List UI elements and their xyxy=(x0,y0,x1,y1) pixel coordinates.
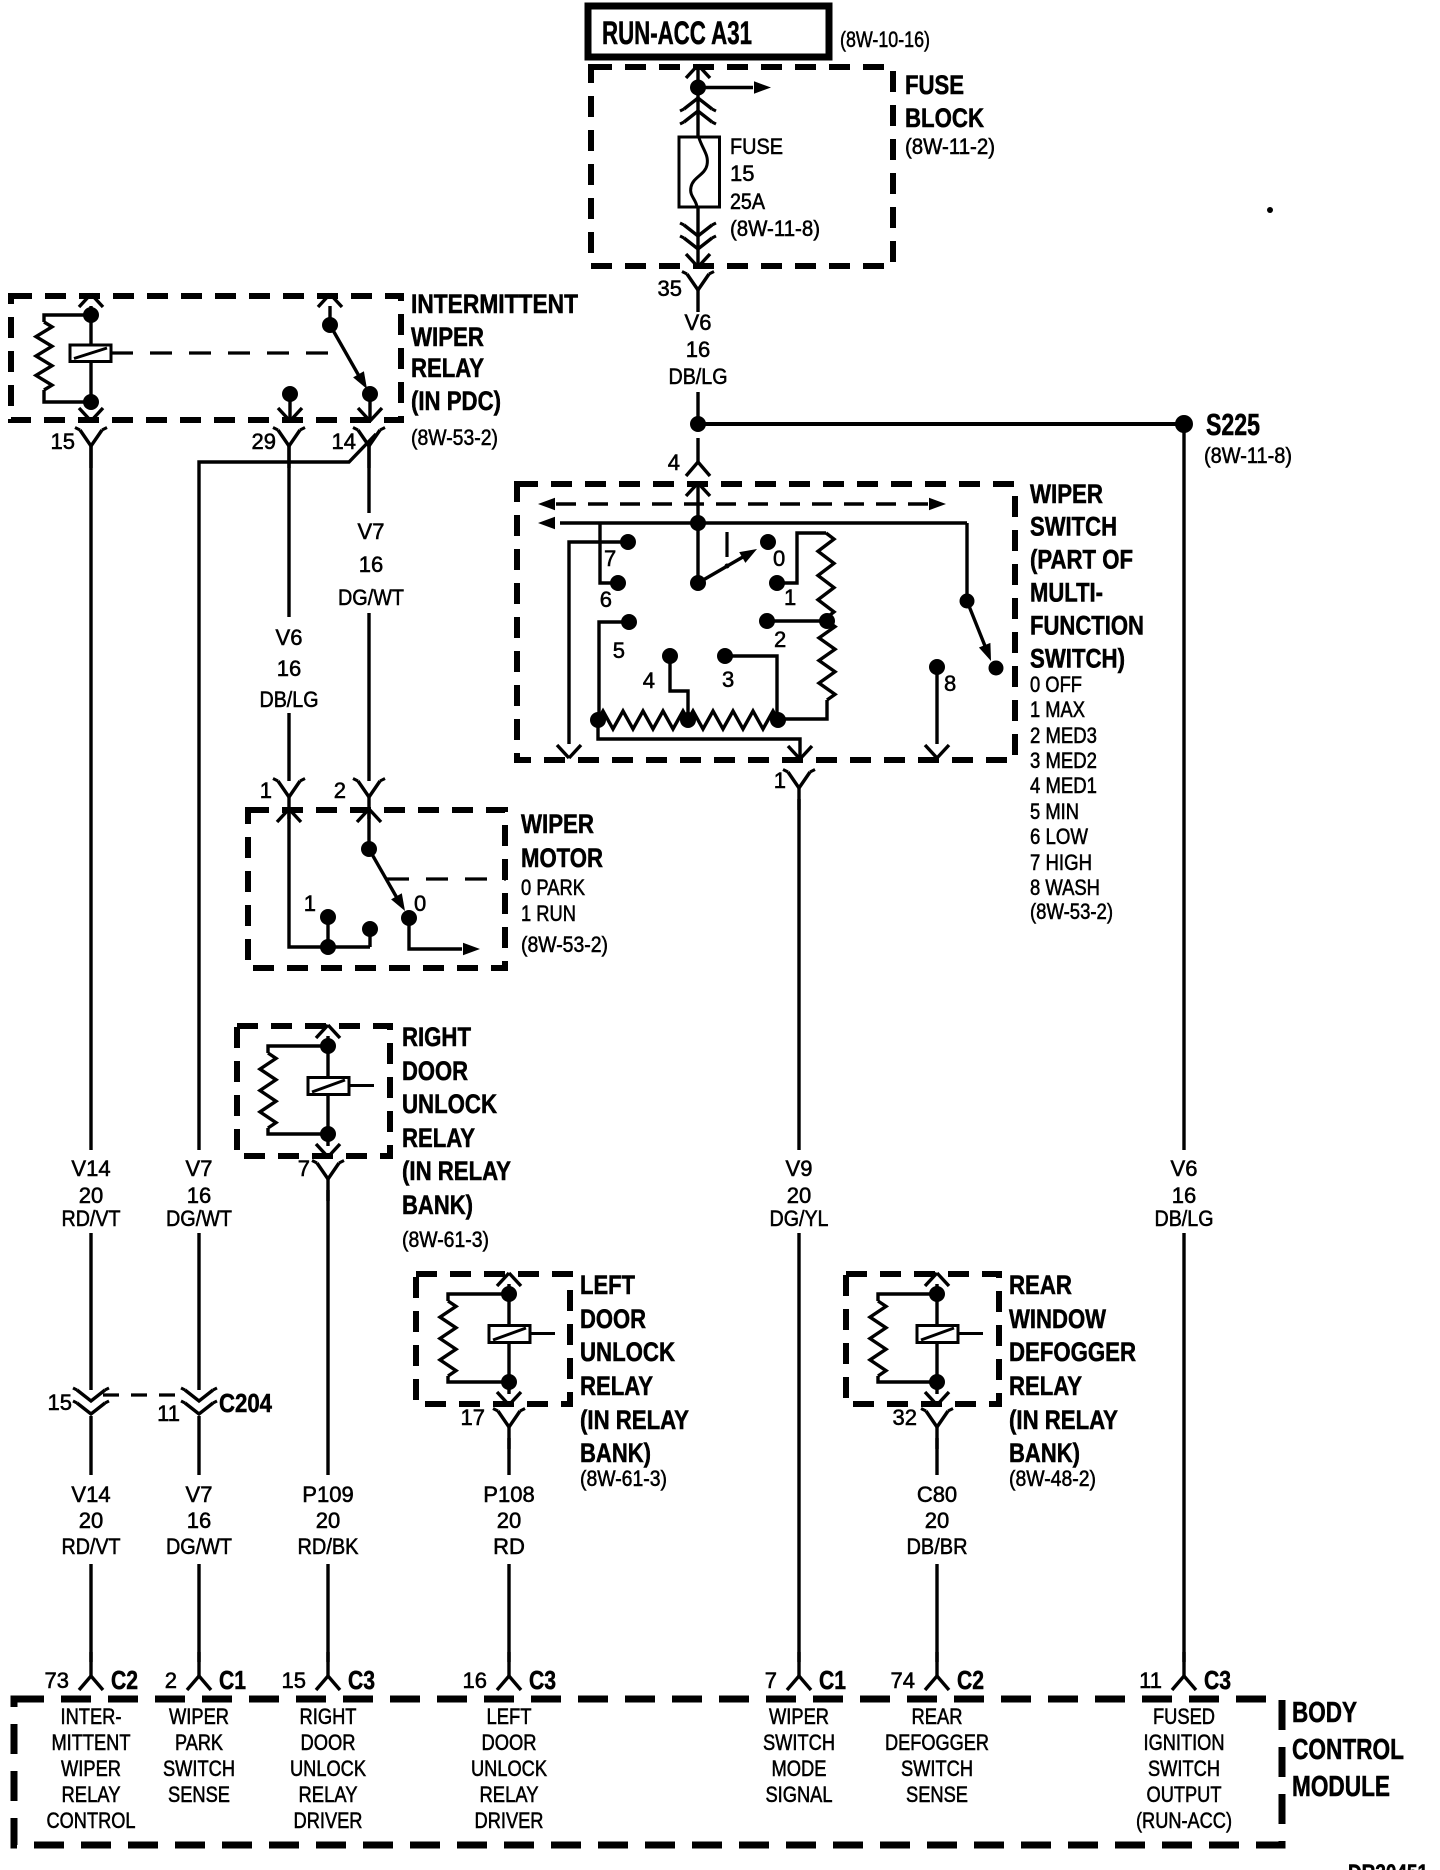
splice junction dot xyxy=(690,416,706,432)
wire label V14 20 RD/VT (upper) xyxy=(62,1156,121,1231)
BCM connector C3 pin 15 xyxy=(282,1652,375,1695)
contact 2 xyxy=(759,613,786,652)
svg-text:2: 2 xyxy=(165,1668,177,1693)
connector 32 xyxy=(893,1405,953,1449)
svg-text:32: 32 xyxy=(893,1405,917,1430)
contact 7 xyxy=(604,534,636,571)
svg-text:SENSE: SENSE xyxy=(906,1782,968,1807)
svg-text:2 MED3: 2 MED3 xyxy=(1030,723,1097,748)
switch feed wire xyxy=(696,484,699,583)
BCM connector C2 pin 74 xyxy=(891,1652,984,1695)
svg-text:35: 35 xyxy=(658,276,682,301)
svg-text:1 RUN: 1 RUN xyxy=(521,901,576,926)
svg-text:INTER-: INTER- xyxy=(61,1704,122,1729)
svg-text:DEFOGGER: DEFOGGER xyxy=(1009,1337,1136,1367)
relay switch pivot dot xyxy=(322,317,338,333)
connector 1 (motor) xyxy=(260,778,305,819)
output wire to pin 1 xyxy=(598,720,800,757)
wire contact 2 to junction xyxy=(767,619,827,622)
switch name label xyxy=(1030,479,1144,674)
svg-text:SWITCH: SWITCH xyxy=(1148,1756,1220,1781)
junction dot R4 right xyxy=(770,712,786,728)
dashed link C204 xyxy=(103,1393,187,1396)
svg-text:C1: C1 xyxy=(819,1665,846,1695)
wire contact 4 down xyxy=(670,656,688,719)
connector C204 pin 15 xyxy=(48,1388,109,1415)
svg-text:RELAY: RELAY xyxy=(1009,1371,1082,1401)
svg-text:CONTROL: CONTROL xyxy=(47,1808,136,1833)
park switch arm xyxy=(369,849,405,911)
connector 15 xyxy=(51,428,107,469)
svg-text:UNLOCK: UNLOCK xyxy=(290,1756,366,1781)
svg-text:DOOR: DOOR xyxy=(482,1730,537,1755)
body control module (dashed box) xyxy=(14,1699,1282,1845)
svg-text:(8W-11-8): (8W-11-8) xyxy=(730,216,820,241)
wire V14 lower run xyxy=(89,1416,92,1662)
wire C80 upper run xyxy=(935,1438,938,1475)
svg-text:2: 2 xyxy=(774,627,786,652)
svg-text:(RUN-ACC): (RUN-ACC) xyxy=(1136,1808,1232,1833)
entry chevron pin 15 xyxy=(79,294,103,307)
svg-text:C3: C3 xyxy=(529,1665,556,1695)
svg-text:(8W-11-8): (8W-11-8) xyxy=(1204,443,1292,468)
svg-text:CONTROL: CONTROL xyxy=(1292,1734,1404,1766)
svg-text:11: 11 xyxy=(1139,1668,1162,1693)
resistor R4 (horizontal right) xyxy=(688,711,778,729)
wire C80 lower run xyxy=(935,1564,938,1662)
svg-text:RIGHT: RIGHT xyxy=(402,1022,471,1052)
wire R2 to bottom junction xyxy=(779,700,827,719)
svg-text:1: 1 xyxy=(304,891,316,916)
wire V14 to C204 xyxy=(89,1233,92,1390)
wire label V14 20 RD/VT (lower) xyxy=(62,1482,121,1559)
wire label V6 16 DB/LG xyxy=(669,310,728,389)
junction dot fuse feed xyxy=(690,80,706,96)
exit chevron pin 14 xyxy=(358,408,382,421)
svg-text:DOOR: DOOR xyxy=(301,1730,356,1755)
reference (8W-53-2) xyxy=(411,425,498,450)
label S225 xyxy=(1206,407,1260,442)
resistor R2 (vertical) xyxy=(819,621,835,700)
center contact dot xyxy=(362,921,378,937)
reference (8W-11-8) xyxy=(1204,443,1292,468)
svg-text:20: 20 xyxy=(787,1183,811,1208)
svg-text:0 PARK: 0 PARK xyxy=(521,875,585,900)
svg-text:(PART OF: (PART OF xyxy=(1030,545,1133,575)
connector 2 (motor) xyxy=(334,778,385,819)
right arm pivot dot xyxy=(960,594,975,609)
left door unlock relay (dashed box) xyxy=(416,1274,570,1404)
svg-text:RELAY: RELAY xyxy=(402,1123,475,1153)
junction dot R1/R2 xyxy=(819,613,835,629)
svg-text:16: 16 xyxy=(686,337,710,362)
svg-text:FUSE: FUSE xyxy=(730,134,783,159)
wire label P108 20 RD xyxy=(483,1482,534,1559)
svg-text:DOOR: DOOR xyxy=(580,1304,646,1334)
svg-text:4: 4 xyxy=(643,668,655,693)
svg-text:0 OFF: 0 OFF xyxy=(1030,672,1082,697)
svg-text:RELAY: RELAY xyxy=(411,353,484,383)
svg-text:DRIVER: DRIVER xyxy=(475,1808,544,1833)
svg-text:20: 20 xyxy=(79,1508,103,1533)
relay coil wire xyxy=(89,306,92,402)
wire label V7 16 DG/WT (lower) xyxy=(166,1482,232,1559)
svg-text:WIPER: WIPER xyxy=(521,809,594,839)
BCM connector C2 pin 73 xyxy=(45,1652,138,1695)
left door unlock relay internals xyxy=(440,1273,555,1405)
connector 7 xyxy=(298,1156,344,1201)
svg-text:6 LOW: 6 LOW xyxy=(1030,824,1088,849)
svg-text:73: 73 xyxy=(45,1668,69,1693)
park output arrow xyxy=(463,943,480,955)
rear defogger relay internals xyxy=(870,1273,983,1405)
park contact 1 xyxy=(304,891,336,925)
BCM pin 73 function label xyxy=(47,1704,136,1833)
svg-text:8 WASH: 8 WASH xyxy=(1030,875,1100,900)
svg-text:DG/WT: DG/WT xyxy=(166,1206,232,1231)
BCM pin 11 function label xyxy=(1136,1704,1232,1833)
svg-text:(IN RELAY: (IN RELAY xyxy=(402,1156,511,1186)
svg-text:16: 16 xyxy=(463,1668,487,1693)
switch pivot dot xyxy=(690,575,706,591)
BCM pin 16 function label xyxy=(471,1704,547,1833)
svg-text:BANK): BANK) xyxy=(580,1438,651,1468)
wire contact 5 down xyxy=(599,622,629,720)
park contact 1 stem xyxy=(326,917,329,947)
svg-text:C204: C204 xyxy=(219,1388,272,1418)
entry chevron motor pin 2 xyxy=(357,809,381,822)
entry chevron switch feed xyxy=(686,483,710,496)
contact 6 xyxy=(600,575,626,612)
wire contact 3 down xyxy=(725,656,777,719)
connector 35 xyxy=(658,272,714,313)
svg-text:WIPER: WIPER xyxy=(769,1704,829,1729)
svg-text:29: 29 xyxy=(252,429,276,454)
wire feed into fuse block xyxy=(696,66,699,137)
svg-text:0: 0 xyxy=(414,891,426,916)
svg-text:PARK: PARK xyxy=(175,1730,223,1755)
wire contact 6 to bus xyxy=(600,523,618,583)
svg-text:RIGHT: RIGHT xyxy=(300,1704,357,1729)
svg-text:15: 15 xyxy=(51,429,75,454)
svg-text:V6: V6 xyxy=(685,310,712,335)
svg-text:C3: C3 xyxy=(348,1665,375,1695)
exit chevron at fuse block bottom xyxy=(686,254,710,267)
wire P108 lower run xyxy=(507,1564,510,1662)
relay switch arm xyxy=(330,325,367,389)
svg-text:1: 1 xyxy=(260,778,272,803)
svg-text:20: 20 xyxy=(316,1508,340,1533)
relay switch common wire xyxy=(328,306,331,325)
inline connector marks (up) xyxy=(680,98,716,124)
bus wire to left arrow and right arm xyxy=(538,517,967,529)
branch arrow to other circuits xyxy=(698,81,771,93)
park switch pivot dot xyxy=(361,841,377,857)
svg-text:DG/WT: DG/WT xyxy=(338,585,404,610)
svg-text:UNLOCK: UNLOCK xyxy=(471,1756,547,1781)
wire V6 from S225 xyxy=(1182,424,1185,1662)
fuse block label xyxy=(905,70,995,159)
fuse block (dashed box) xyxy=(591,67,893,266)
svg-text:RD: RD xyxy=(493,1534,525,1559)
wiper motor (dashed box) xyxy=(248,810,505,968)
defogger relay name label xyxy=(1009,1270,1136,1491)
wire label P109 20 RD/BK xyxy=(298,1482,359,1559)
svg-text:(IN RELAY: (IN RELAY xyxy=(580,1405,689,1435)
wire branch from pin 14 xyxy=(199,434,376,1150)
svg-text:SWITCH: SWITCH xyxy=(763,1730,835,1755)
junction dot R3 left xyxy=(590,712,606,728)
svg-text:V6: V6 xyxy=(276,625,303,650)
svg-text:V7: V7 xyxy=(186,1156,213,1181)
wire fuse to block exit xyxy=(696,207,699,266)
right door unlock relay (dashed box) xyxy=(237,1026,390,1156)
junction dot R3/R4 xyxy=(680,712,696,728)
svg-text:20: 20 xyxy=(79,1183,103,1208)
feed junction dot xyxy=(690,515,706,531)
svg-text:BANK): BANK) xyxy=(1009,1438,1080,1468)
fuse 15 25A xyxy=(679,137,720,207)
svg-text:17: 17 xyxy=(461,1405,485,1430)
svg-text:15: 15 xyxy=(282,1668,306,1693)
wire P108 upper run xyxy=(507,1438,510,1475)
svg-text:(8W-11-2): (8W-11-2) xyxy=(905,134,995,159)
wire label V6 16 DB/LG (right) xyxy=(1155,1156,1214,1231)
reference (8W-10-16) xyxy=(840,27,930,52)
feed box RUN-ACC A31 xyxy=(588,6,829,57)
svg-text:(8W-53-2): (8W-53-2) xyxy=(521,932,608,957)
svg-text:BLOCK: BLOCK xyxy=(905,103,984,133)
svg-text:WIPER: WIPER xyxy=(1030,479,1103,509)
svg-text:INTERMITTENT: INTERMITTENT xyxy=(411,289,578,319)
relay contact wire pin 29 xyxy=(288,394,291,420)
svg-text:S225: S225 xyxy=(1206,407,1260,442)
svg-text:7: 7 xyxy=(298,1156,310,1181)
relay contact dot pin 29 xyxy=(282,386,298,402)
right switch arm (wash) xyxy=(967,601,991,661)
svg-text:16: 16 xyxy=(359,552,383,577)
junction dot coil bottom xyxy=(83,394,99,410)
mechanical link (dashed) xyxy=(387,877,506,880)
wire V7 to C204 xyxy=(197,1233,200,1390)
svg-text:7: 7 xyxy=(604,546,616,571)
svg-text:3 MED2: 3 MED2 xyxy=(1030,748,1097,773)
junction dot on pin1 wire xyxy=(320,939,336,955)
relay coil xyxy=(70,345,111,362)
connector C204 pin 11 xyxy=(157,1388,217,1426)
plate number (clipped) xyxy=(1348,1860,1428,1870)
svg-text:C2: C2 xyxy=(111,1665,138,1695)
svg-text:DB/BR: DB/BR xyxy=(907,1534,968,1559)
junction dot coil top xyxy=(83,307,99,323)
svg-text:(8W-10-16): (8W-10-16) xyxy=(840,27,930,52)
connector 4 xyxy=(668,438,710,476)
svg-text:DR30451: DR30451 xyxy=(1348,1860,1428,1870)
svg-text:WIPER: WIPER xyxy=(169,1704,229,1729)
svg-text:8: 8 xyxy=(944,671,956,696)
svg-text:RELAY: RELAY xyxy=(580,1371,653,1401)
motor name label xyxy=(521,809,603,873)
wire P109 lower run xyxy=(326,1564,329,1662)
svg-text:11: 11 xyxy=(157,1401,180,1426)
motor pin1 wire xyxy=(289,810,370,947)
BCM connector C3 pin 16 xyxy=(463,1652,556,1695)
contact 0 xyxy=(760,534,785,571)
svg-text:P109: P109 xyxy=(302,1482,353,1507)
svg-text:RD/VT: RD/VT xyxy=(62,1206,121,1231)
svg-text:FUNCTION: FUNCTION xyxy=(1030,611,1144,641)
svg-text:RELAY: RELAY xyxy=(480,1782,539,1807)
inline connector marks (down) xyxy=(680,223,716,249)
svg-text:V7: V7 xyxy=(358,519,385,544)
svg-text:0: 0 xyxy=(773,546,785,571)
BCM pin 2 function label xyxy=(163,1704,235,1807)
right relay name label xyxy=(402,1022,511,1252)
svg-text:OUTPUT: OUTPUT xyxy=(1147,1782,1222,1807)
wire label V7 16 DG/WT (motor feed) xyxy=(338,519,404,610)
rear window defogger relay (dashed box) xyxy=(846,1274,999,1404)
svg-text:V9: V9 xyxy=(786,1156,813,1181)
output arrow (low speed) xyxy=(557,745,581,758)
svg-text:MOTOR: MOTOR xyxy=(521,843,603,873)
svg-text:16: 16 xyxy=(277,656,301,681)
wire V7 lower run xyxy=(197,1416,200,1662)
wire V14 upper run xyxy=(89,446,92,1150)
motor position labels xyxy=(521,875,608,957)
connector 17 xyxy=(461,1405,525,1449)
svg-text:WIPER: WIPER xyxy=(411,322,484,352)
svg-text:7 HIGH: 7 HIGH xyxy=(1030,850,1092,875)
svg-text:14: 14 xyxy=(332,429,356,454)
svg-text:V7: V7 xyxy=(186,1482,213,1507)
stray scan dot xyxy=(1267,207,1273,213)
svg-text:(8W-53-2): (8W-53-2) xyxy=(1030,899,1113,924)
svg-text:MODULE: MODULE xyxy=(1292,1771,1390,1803)
svg-text:SWITCH: SWITCH xyxy=(1030,512,1117,542)
svg-text:4: 4 xyxy=(668,450,680,475)
svg-text:16: 16 xyxy=(187,1183,211,1208)
intermittent wiper relay (dashed box) xyxy=(11,296,401,420)
svg-text:DB/LG: DB/LG xyxy=(1155,1206,1214,1231)
entry chevron at fuse block top xyxy=(686,65,710,78)
mechanical link (dashed) xyxy=(111,351,344,354)
svg-text:C80: C80 xyxy=(917,1482,957,1507)
svg-text:DOOR: DOOR xyxy=(402,1056,468,1086)
svg-text:C1: C1 xyxy=(219,1665,246,1695)
svg-text:SWITCH: SWITCH xyxy=(163,1756,235,1781)
relay contact wire pin 14 xyxy=(368,394,371,420)
contact 8 xyxy=(929,659,956,696)
svg-text:C2: C2 xyxy=(957,1665,984,1695)
svg-text:RELAY: RELAY xyxy=(299,1782,358,1807)
svg-text:1 MAX: 1 MAX xyxy=(1030,697,1085,722)
connector 1 (switch output) xyxy=(774,768,815,810)
svg-text:FUSED: FUSED xyxy=(1153,1704,1215,1729)
center contact stem xyxy=(368,929,371,947)
left relay name label xyxy=(580,1270,689,1491)
svg-text:SWITCH: SWITCH xyxy=(901,1756,973,1781)
switch arm toward contact 0 xyxy=(698,549,757,583)
svg-text:16: 16 xyxy=(1172,1183,1196,1208)
svg-text:5 MIN: 5 MIN xyxy=(1030,799,1079,824)
BCM pin 7 function label xyxy=(763,1704,835,1807)
svg-text:V6: V6 xyxy=(1171,1156,1198,1181)
svg-text:(IN RELAY: (IN RELAY xyxy=(1009,1405,1118,1435)
right arm contact dot xyxy=(989,661,1004,676)
wire P109 upper run xyxy=(326,1190,329,1475)
wiper switch (dashed box) xyxy=(517,484,1015,760)
svg-text:SWITCH): SWITCH) xyxy=(1030,644,1125,674)
motor pin2 wire xyxy=(367,810,370,849)
contact 5 xyxy=(613,614,637,663)
BCM pin 74 function label xyxy=(885,1704,989,1807)
svg-text:MODE: MODE xyxy=(772,1756,827,1781)
wire V9 from wiper switch xyxy=(797,799,800,1662)
park contact 0 xyxy=(401,891,426,926)
svg-text:UNLOCK: UNLOCK xyxy=(580,1337,675,1367)
wire to splice xyxy=(696,392,699,424)
wire contact 1 to resistor xyxy=(777,533,826,583)
svg-text:(8W-61-3): (8W-61-3) xyxy=(402,1227,489,1252)
fuse value label xyxy=(730,134,820,241)
svg-text:SENSE: SENSE xyxy=(168,1782,230,1807)
dashed double-headed arrow (wiper travel) xyxy=(538,498,946,510)
svg-text:2: 2 xyxy=(334,778,346,803)
svg-text:1: 1 xyxy=(784,585,796,610)
svg-text:V14: V14 xyxy=(71,1482,110,1507)
svg-text:20: 20 xyxy=(925,1508,949,1533)
resistor R1 (vertical) xyxy=(818,533,834,618)
svg-text:DB/LG: DB/LG xyxy=(669,364,728,389)
svg-text:DRIVER: DRIVER xyxy=(294,1808,363,1833)
wire label V7 16 DG/WT (upper) xyxy=(166,1156,232,1231)
svg-text:FUSE: FUSE xyxy=(905,70,964,100)
svg-text:20: 20 xyxy=(497,1508,521,1533)
wire splice to S225 xyxy=(698,422,1184,426)
wash output wire xyxy=(935,667,938,744)
svg-text:6: 6 xyxy=(600,587,612,612)
BCM connector C1 pin 7 xyxy=(765,1652,846,1695)
wire pin 29 to motor xyxy=(287,446,290,781)
entry chevron coil feed xyxy=(318,294,342,307)
svg-text:4 MED1: 4 MED1 xyxy=(1030,773,1097,798)
svg-text:RD/BK: RD/BK xyxy=(298,1534,359,1559)
wire label V9 20 DG/YL xyxy=(770,1156,829,1231)
svg-text:LEFT: LEFT xyxy=(580,1270,635,1300)
BCM pin 15 function label xyxy=(290,1704,366,1833)
BCM connector C3 pin 11 xyxy=(1139,1652,1231,1695)
contact 1 xyxy=(769,575,796,610)
svg-text:DG/YL: DG/YL xyxy=(770,1206,829,1231)
right arm feed xyxy=(965,523,968,601)
label C204 xyxy=(219,1388,272,1418)
relay contact dot pin 14 xyxy=(362,386,378,402)
wire pin 14 to motor xyxy=(367,446,370,781)
park run output wire xyxy=(409,918,462,949)
wash output arrow xyxy=(925,745,949,758)
BCM connector C1 pin 2 xyxy=(165,1652,246,1695)
svg-text:BODY: BODY xyxy=(1292,1697,1357,1729)
svg-text:WIPER: WIPER xyxy=(61,1756,121,1781)
svg-text:3: 3 xyxy=(722,667,734,692)
connector 14 xyxy=(332,428,385,469)
svg-text:BANK): BANK) xyxy=(402,1190,473,1220)
svg-text:C3: C3 xyxy=(1204,1665,1231,1695)
svg-text:25A: 25A xyxy=(730,189,765,214)
switch position list xyxy=(1030,672,1113,924)
node S225 xyxy=(1175,415,1193,433)
exit chevron pin 1 xyxy=(788,746,812,759)
